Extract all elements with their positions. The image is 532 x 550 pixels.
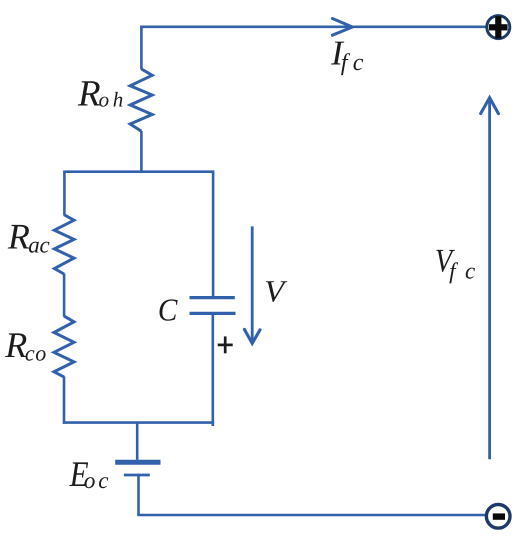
voltage arrow V: [244, 226, 260, 343]
svg-text:R: R: [77, 74, 101, 115]
wire left branch upper: [63, 171, 66, 216]
wire left branch lower: [63, 376, 66, 423]
capacitor C top plate: [190, 296, 235, 299]
svg-text:V: V: [264, 273, 287, 308]
wire bottom horizontal: [138, 514, 486, 517]
wire battery to bottom: [137, 475, 140, 516]
battery E_oc short plate: [124, 474, 150, 477]
terminal plus circle: [487, 16, 510, 39]
svg-text:ac: ac: [28, 233, 49, 258]
label E_oc: [69, 454, 109, 494]
terminal minus circle: [486, 505, 510, 529]
polarity plus of capacitor: [218, 336, 233, 353]
wire right branch lower: [212, 315, 215, 426]
resistor R_co: [54, 316, 74, 377]
svg-text:oc: oc: [84, 468, 109, 493]
resistor R_ac: [54, 215, 74, 274]
svg-text:R: R: [7, 217, 30, 257]
capacitor C bottom plate: [190, 312, 236, 315]
svg-text:C: C: [158, 292, 178, 328]
wire center stem to battery: [136, 421, 139, 459]
wire top-left corner vertical to R_oh: [140, 26, 143, 70]
label R_co: [4, 325, 46, 366]
wire right branch upper: [212, 171, 215, 297]
svg-text:R: R: [4, 325, 27, 365]
svg-text:oh: oh: [99, 88, 124, 112]
svg-text:fc: fc: [449, 259, 475, 284]
label V_fc: [435, 244, 475, 284]
svg-text:fc: fc: [341, 50, 364, 76]
wire between R_ac and R_co: [63, 274, 66, 317]
wire top horizontal: [141, 25, 486, 28]
current arrow I_fc: [332, 19, 352, 36]
wire inner-loop top horizontal: [64, 170, 215, 173]
resistor R_oh: [130, 69, 152, 131]
label R_oh: [77, 74, 123, 115]
label I_fc: [330, 34, 364, 76]
label R_ac: [7, 217, 50, 258]
arrow V_fc: [481, 98, 499, 460]
battery E_oc long plate: [115, 460, 160, 465]
svg-text:co: co: [25, 341, 46, 366]
wire inner-loop bottom horizontal: [63, 421, 214, 424]
wire R_oh to top node: [140, 131, 143, 173]
